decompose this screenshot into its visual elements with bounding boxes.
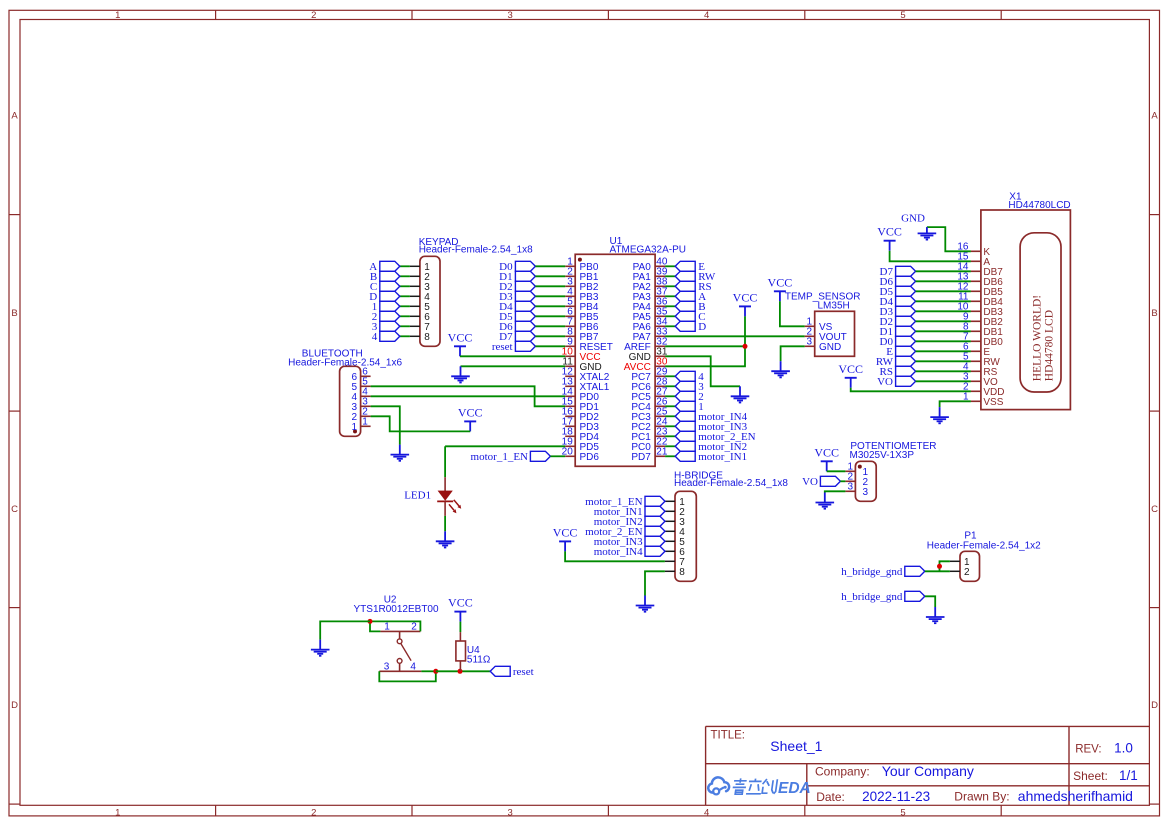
KEYPAD pin 4 <box>410 292 430 303</box>
wire X1 pin 1 VSS to ground <box>940 401 971 407</box>
wire U1 pin 31 GND <box>665 356 740 386</box>
power VCC at POT pin 1 <box>814 445 839 471</box>
wire U2 pin 4 <box>421 670 435 672</box>
svg-text:VCC: VCC <box>448 596 473 610</box>
connector BLUETOOTH Header-Female-2.54_1x6 <box>288 349 402 437</box>
wire U1 pin 26 to net 1 <box>665 405 675 407</box>
net flag D4 <box>499 301 535 313</box>
POT pin 1 <box>845 462 868 479</box>
svg-text:4: 4 <box>372 331 378 343</box>
svg-text:HD44780 LCD: HD44780 LCD <box>1043 310 1055 381</box>
wire net D0 to U1 pin 1 <box>535 265 565 267</box>
KEYPAD pin 3 <box>410 282 430 293</box>
wire net D2 to X1 <box>916 320 971 322</box>
net flag D5 <box>880 286 916 298</box>
U1 pin 2 PB1 <box>565 267 599 284</box>
wire U2 pin3 to pin4 loop <box>379 671 436 681</box>
svg-text:YTS1R0012EBT00: YTS1R0012EBT00 <box>354 604 439 615</box>
wire VCC to U1 pin 30 AVCC <box>665 316 745 366</box>
title block <box>706 726 1150 805</box>
net flag motor_2_EN <box>675 431 755 443</box>
wire net RS to X1 <box>916 370 971 372</box>
microcontroller U1 ATMEGA32A-PU body <box>575 236 686 466</box>
wire VCC to U4 <box>459 622 461 633</box>
wire to P1 pin 1 <box>940 561 950 571</box>
U1 pin 31 GND <box>629 347 668 364</box>
svg-text:VCC: VCC <box>448 330 473 344</box>
ground at U1 pin 31 <box>731 386 750 402</box>
U1 pin 4 PB3 <box>565 287 599 304</box>
junction <box>433 669 438 674</box>
wire net E to X1 <box>916 350 971 352</box>
H-BRIDGE pin 2 <box>665 507 685 518</box>
svg-text:4: 4 <box>410 662 416 673</box>
svg-text:h_bridge_gnd: h_bridge_gnd <box>841 591 903 603</box>
wire X1 pin 16 K to ground <box>927 227 971 251</box>
U1 pin 37 PA3 <box>633 287 668 304</box>
ground at U2 <box>311 640 330 656</box>
net flag E <box>675 261 705 273</box>
svg-text:Header-Female-2.54_1x2: Header-Female-2.54_1x2 <box>927 541 1041 552</box>
ground at POT pin 3 <box>816 493 835 509</box>
wire U1 pin 36 to net B <box>665 305 675 307</box>
wire U1 pin 40 to net E <box>665 265 675 267</box>
net flag D3 <box>499 291 535 303</box>
net flag D2 <box>499 281 535 293</box>
power VCC at X1 pin 15 <box>877 225 902 251</box>
net flag 4 <box>675 371 704 383</box>
ground with GND label at X1 pin 16 <box>901 212 936 239</box>
net flag motor_1_EN <box>585 496 665 508</box>
svg-text:VCC: VCC <box>768 275 793 289</box>
junction <box>937 564 942 569</box>
net flag motor_IN2 <box>675 441 747 453</box>
U1 pin 27 PC5 <box>631 387 668 404</box>
U1 pin 18 PD4 <box>562 427 600 444</box>
power VCC at AREF/AVCC <box>733 290 758 316</box>
wire VCC to H-BRIDGE pin 7 <box>565 551 665 561</box>
net flag D <box>369 291 400 303</box>
net flag C <box>675 311 705 323</box>
svg-text:2: 2 <box>311 807 316 818</box>
wire U1 pin 25 to net motor_IN4 <box>665 415 675 417</box>
svg-text:1: 1 <box>115 10 120 21</box>
wire U2 to reset net <box>436 670 490 672</box>
svg-text:M3025V-1X3P: M3025V-1X3P <box>850 450 915 461</box>
net flag D3 <box>880 306 916 318</box>
net flag A <box>369 261 400 273</box>
U1 pin 32 AREF <box>624 337 668 354</box>
net flag reset <box>490 666 533 678</box>
svg-text:reset: reset <box>492 341 513 353</box>
KEYPAD pin 5 <box>410 302 430 313</box>
wire net D6 to X1 <box>916 280 971 282</box>
U1 pin 15 PD1 <box>562 397 600 414</box>
svg-text:HELLO WORLD!: HELLO WORLD! <box>1032 295 1044 381</box>
U1 pin 34 PA6 <box>633 317 668 334</box>
wire VCC to LM35H VS <box>780 301 805 326</box>
wire net D7 to U1 pin 8 <box>535 335 565 337</box>
net flag motor_IN4 <box>675 411 747 423</box>
X1 pin 8 DB1 <box>963 322 1003 339</box>
svg-text:D: D <box>11 700 18 711</box>
X1 pin 11 DB4 <box>958 292 1003 309</box>
svg-text:PD6: PD6 <box>580 452 600 463</box>
svg-text:VO: VO <box>877 376 893 388</box>
net flag motor_IN2 <box>594 516 665 528</box>
U1 pin 28 PC6 <box>631 377 668 394</box>
power VCC at BLUETOOTH pin 2 <box>458 405 483 431</box>
wire net D3 to U1 pin 4 <box>535 295 565 297</box>
svg-text:REV:: REV: <box>1075 744 1101 756</box>
svg-text:VCC: VCC <box>553 525 578 539</box>
H-BRIDGE pin 7 <box>665 557 685 568</box>
KEYPAD pin 8 <box>410 332 430 343</box>
junction <box>743 344 748 349</box>
wire net D7 to X1 <box>916 270 971 272</box>
U1 pin 20 PD6 <box>562 447 600 464</box>
power VCC at LM35H <box>768 275 793 301</box>
wire net D6 to U1 pin 7 <box>535 325 565 327</box>
svg-text:4: 4 <box>704 807 709 818</box>
wire PD5 down to LED1 <box>444 446 446 477</box>
power VCC at U1 pin 10 <box>448 330 473 356</box>
svg-text:1: 1 <box>384 622 390 633</box>
U1 pin 12 XTAL2 <box>562 367 610 384</box>
wire U1 pin 32 AREF <box>665 345 745 347</box>
net flag D6 <box>499 321 535 333</box>
svg-text:5: 5 <box>900 10 905 21</box>
U1 pin 9 RESET <box>565 337 613 354</box>
wire U1 pin 24 to net motor_IN3 <box>665 425 675 427</box>
U1 pin 19 PD5 <box>562 437 600 454</box>
display X1 HD44780LCD <box>981 191 1071 409</box>
ground at H-BRIDGE pin 8 <box>636 596 655 612</box>
svg-text:2022-11-23: 2022-11-23 <box>862 789 930 804</box>
wire U1 pin 11 to ground <box>461 365 566 367</box>
BLUETOOTH pin 4 <box>351 387 370 404</box>
wire U1 pin 37 to net A <box>665 295 675 297</box>
svg-text:LED1: LED1 <box>404 490 431 502</box>
wire U2 to ground <box>320 621 370 639</box>
svg-text:LM35H: LM35H <box>818 300 850 311</box>
wire net D5 to U1 pin 6 <box>535 315 565 317</box>
H-BRIDGE pin 4 <box>665 527 685 538</box>
net flag motor_IN3 <box>675 421 747 433</box>
wire U1 pin 33 PA7 to VOUT <box>665 335 805 337</box>
BLUETOOTH pin 5 <box>351 377 370 394</box>
svg-text:VCC: VCC <box>838 362 863 376</box>
junction <box>458 669 463 674</box>
wire net 2 to KEYPAD pin 6 <box>400 315 410 317</box>
X1 pin 6 E <box>963 342 990 359</box>
wire net D0 to X1 <box>916 340 971 342</box>
svg-text:Date:: Date: <box>816 790 845 804</box>
H-BRIDGE pin 1 <box>665 497 685 508</box>
svg-text:ahmedsherifhamid: ahmedsherifhamid <box>1018 788 1133 804</box>
KEYPAD pin 2 <box>410 272 430 283</box>
wire net A to KEYPAD pin 1 <box>400 265 410 267</box>
wire U1 pin 21 to net motor_IN1 <box>665 455 675 457</box>
net flag motor_IN1 <box>594 506 665 518</box>
wire U1 pin 23 to net motor_2_EN <box>665 435 675 437</box>
wire net VO to X1 <box>916 380 971 382</box>
X1 pin 4 RS <box>963 362 998 379</box>
net flag RW <box>876 356 916 368</box>
svg-text:motor_IN4: motor_IN4 <box>594 546 643 558</box>
U1 pin 7 PB6 <box>565 317 599 334</box>
U1 pin 33 PA7 <box>633 327 668 344</box>
svg-text:ATMEGA32A-PU: ATMEGA32A-PU <box>610 245 687 256</box>
power VCC at X1 VDD <box>838 362 863 388</box>
net flag reset <box>492 341 536 353</box>
net flag D0 <box>880 336 916 348</box>
U1 pin 36 PA4 <box>633 297 668 314</box>
X1 pin 2 VDD <box>963 382 1005 399</box>
wire net 3 to KEYPAD pin 7 <box>400 325 410 327</box>
wire net 1 to KEYPAD pin 5 <box>400 305 410 307</box>
U1 pin 11 GND <box>562 357 601 374</box>
svg-text:C: C <box>1151 504 1158 515</box>
connector P1 Header-Female-2.54_1x2 <box>927 531 1041 582</box>
svg-text:motor_IN1: motor_IN1 <box>698 451 747 463</box>
wire reset to U1 pin 9 <box>535 345 565 347</box>
wire BLUETOOTH pin 4 to U1 PD0 <box>371 395 566 397</box>
wire U1 pin 39 to net RW <box>665 275 675 277</box>
svg-text:Drawn By:: Drawn By: <box>954 790 1009 804</box>
U1 pin 35 PA5 <box>633 307 668 324</box>
svg-text:TITLE:: TITLE: <box>711 730 746 742</box>
net flag 4 <box>372 331 400 343</box>
net flag B <box>675 301 705 313</box>
wire net D4 to U1 pin 5 <box>535 305 565 307</box>
P1 pin 1 <box>950 557 970 568</box>
wire U1 pin 34 to net D <box>665 325 675 327</box>
svg-text:VCC: VCC <box>733 290 758 304</box>
net flag 3 <box>372 321 400 333</box>
svg-text:h_bridge_gnd: h_bridge_gnd <box>841 566 903 578</box>
KEYPAD pin 6 <box>410 312 430 323</box>
U1 pin 16 PD2 <box>562 407 600 424</box>
net flag 3 <box>675 381 704 393</box>
wire VCC to X1 pin 15 A <box>890 251 971 262</box>
net flag h_bridge_gnd <box>841 566 925 578</box>
wire BLUETOOTH pin 2 to VCC <box>371 416 471 431</box>
net flag D4 <box>880 296 916 308</box>
svg-text:3: 3 <box>508 10 513 21</box>
wire U1 pin 19 PD5 <box>445 445 565 447</box>
wire net RW to X1 <box>916 360 971 362</box>
net flag RW <box>675 271 716 283</box>
net flag D2 <box>880 316 916 328</box>
wire net 4 to KEYPAD pin 8 <box>400 335 410 337</box>
switch U2 YTS1R0012EBT00 <box>354 594 439 672</box>
net flag motor_2_EN <box>585 526 665 538</box>
X1 pin 10 DB3 <box>957 302 1003 319</box>
U1 pin 23 PC1 <box>631 427 668 444</box>
net flag VO <box>802 476 840 488</box>
svg-text:Your Company: Your Company <box>882 763 974 779</box>
wire h_bridge_gnd to P1 pin 2 <box>925 570 950 572</box>
BLUETOOTH pin 1 <box>351 417 370 434</box>
LM35H pin 3 GND <box>805 337 842 354</box>
wire net C to KEYPAD pin 3 <box>400 285 410 287</box>
EasyEDA logo <box>708 777 811 797</box>
X1 pin 16 K <box>957 242 990 259</box>
wire net D2 to U1 pin 3 <box>535 285 565 287</box>
net flag motor_1_EN <box>471 451 551 463</box>
wire VCC to U1 pin 10 <box>460 355 565 357</box>
BLUETOOTH pin 2 <box>351 407 370 424</box>
wire BLUETOOTH pin 3 to ground <box>371 406 400 444</box>
svg-text:3: 3 <box>863 487 869 498</box>
wire net D3 to X1 <box>916 310 971 312</box>
wire U1 pin 27 to net 2 <box>665 395 675 397</box>
H-BRIDGE pin 6 <box>665 547 685 558</box>
svg-text:3: 3 <box>847 482 853 493</box>
svg-text:B: B <box>11 308 17 319</box>
ground at LED1 <box>436 531 455 547</box>
svg-text:3: 3 <box>806 337 812 348</box>
net flag motor_IN3 <box>594 536 665 548</box>
svg-text:A: A <box>1151 111 1158 122</box>
U1 pin 3 PB2 <box>565 277 599 294</box>
net flag A <box>675 291 706 303</box>
ground at X1 VSS <box>930 407 949 423</box>
LM35H pin 2 VOUT <box>805 327 847 344</box>
wire U1 pin 38 to net RS <box>665 285 675 287</box>
svg-text:1: 1 <box>115 807 120 818</box>
svg-text:1: 1 <box>351 422 357 433</box>
U1 pin 25 PC3 <box>631 407 668 424</box>
wire net B to KEYPAD pin 2 <box>400 275 410 277</box>
wire BLUETOOTH pin 5 to U1 PD1 <box>371 386 566 406</box>
net flag RS <box>880 366 916 378</box>
net flag D1 <box>499 271 535 283</box>
H-BRIDGE pin 3 <box>665 517 685 528</box>
net flag C <box>370 281 400 293</box>
svg-text:VCC: VCC <box>814 445 839 459</box>
net flag h_bridge_gnd <box>841 591 925 603</box>
net flag B <box>370 271 400 283</box>
X1 pin 5 RW <box>963 352 1001 369</box>
wire U1 pin 35 to net C <box>665 315 675 317</box>
U1 pin 39 PA1 <box>633 267 668 284</box>
wire U2 pin1 to pin2 loop <box>370 621 420 631</box>
svg-text:reset: reset <box>513 666 534 678</box>
wire H-BRIDGE pin 8 to ground <box>645 571 665 595</box>
wire U1 pin 28 to net 3 <box>665 385 675 387</box>
svg-text:C: C <box>11 504 18 515</box>
wire net D5 to X1 <box>916 290 971 292</box>
svg-text:GND: GND <box>901 212 925 224</box>
svg-text:PD7: PD7 <box>631 452 651 463</box>
BLUETOOTH pin 3 <box>351 397 370 414</box>
net flag E <box>886 346 915 358</box>
power VCC at U4 <box>448 596 473 622</box>
U1 pin 13 XTAL1 <box>562 377 610 394</box>
sensor TEMP_SENSOR LM35H <box>785 292 861 357</box>
svg-text:B: B <box>1151 308 1157 319</box>
U1 pin 8 PB7 <box>565 327 599 344</box>
H-BRIDGE pin 8 <box>665 567 685 578</box>
POT pin 3 <box>845 482 868 499</box>
net flag motor_IN1 <box>675 451 747 463</box>
wire net D to KEYPAD pin 4 <box>400 295 410 297</box>
svg-text:511Ω: 511Ω <box>467 654 491 665</box>
wire POT pin 3 to ground <box>825 491 846 492</box>
junction <box>368 619 373 624</box>
net flag 1 <box>372 301 400 313</box>
connector KEYPAD Header-Female-2.54_1x8 <box>419 237 533 346</box>
wire VCC to X1 pin 2 VDD <box>851 388 971 392</box>
wire h_bridge_gnd to ground <box>925 596 935 607</box>
svg-text:A: A <box>11 111 18 122</box>
net flag 2 <box>372 311 400 323</box>
net flag 1 <box>675 401 704 413</box>
connector H-BRIDGE Header-Female-2.54_1x8 <box>674 470 788 581</box>
P1 pin 2 <box>950 567 970 578</box>
net flag RS <box>675 281 711 293</box>
svg-text:Header-Female-2.54_1x8: Header-Female-2.54_1x8 <box>674 478 788 489</box>
potentiometer M3025V-1X3P <box>850 441 937 501</box>
svg-text:motor_1_EN: motor_1_EN <box>471 451 528 463</box>
ground at h_bridge_gnd <box>926 607 945 623</box>
wire LED1 to ground <box>444 516 446 531</box>
svg-text:Header-Female-2.54_1x8: Header-Female-2.54_1x8 <box>419 245 533 256</box>
svg-text:Company:: Company: <box>815 765 870 779</box>
U1 pin 40 PA0 <box>633 257 668 274</box>
X1 pin 15 A <box>957 252 990 269</box>
X1 pin 12 DB5 <box>957 282 1003 299</box>
svg-text:EDA: EDA <box>778 780 811 797</box>
U1 pin 1 PB0 <box>565 257 599 274</box>
svg-text:VO: VO <box>802 476 818 488</box>
X1 pin 13 DB6 <box>957 272 1003 289</box>
ground at U1 pin 11 <box>451 366 470 382</box>
U1 pin 10 VCC <box>562 347 601 364</box>
svg-text:Sheet:: Sheet: <box>1073 769 1108 783</box>
wire U1 pin 29 to net 4 <box>665 375 675 377</box>
svg-text:1: 1 <box>362 417 368 428</box>
svg-text:4: 4 <box>704 10 709 21</box>
U1 pin 5 PB4 <box>565 297 599 314</box>
net flag D0 <box>499 261 535 273</box>
KEYPAD pin 1 <box>410 262 430 273</box>
LM35H pin 1 VS <box>805 317 833 334</box>
wire net D1 to U1 pin 2 <box>535 275 565 277</box>
U1 pin 22 PC0 <box>631 437 668 454</box>
BLUETOOTH pin 6 <box>351 367 370 384</box>
wire U1 pin 22 to net motor_IN2 <box>665 445 675 447</box>
net flag 2 <box>675 391 704 403</box>
U1 pin 38 PA2 <box>633 277 668 294</box>
U1 pin 29 PC7 <box>631 367 668 384</box>
svg-text:2: 2 <box>411 622 417 633</box>
svg-text:GND: GND <box>819 342 841 353</box>
U1 pin 30 AVCC <box>624 357 668 374</box>
wire VCC to POT pin 1 <box>827 470 846 472</box>
wire net D1 to X1 <box>916 330 971 332</box>
svg-text:8: 8 <box>679 567 685 578</box>
H-BRIDGE pin 5 <box>665 537 685 548</box>
svg-text:2: 2 <box>311 10 316 21</box>
X1 pin 14 DB7 <box>957 262 1003 279</box>
svg-text:2: 2 <box>964 567 970 578</box>
net flag D7 <box>499 331 535 343</box>
LED LED1 <box>404 477 461 516</box>
U1 pin 26 PC4 <box>631 397 668 414</box>
